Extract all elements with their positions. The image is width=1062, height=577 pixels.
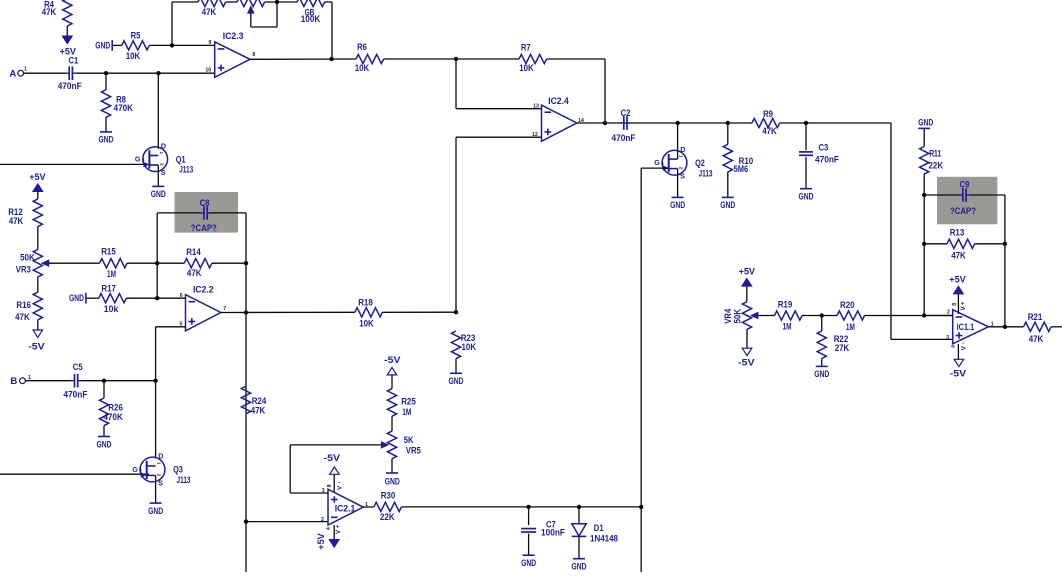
svg-text:?CAP?: ?CAP? bbox=[950, 206, 976, 217]
svg-text:D: D bbox=[158, 452, 163, 461]
svg-text:R13: R13 bbox=[950, 227, 965, 238]
svg-text:-: - bbox=[338, 479, 340, 486]
svg-text:1: 1 bbox=[678, 155, 683, 158]
svg-text:3: 3 bbox=[661, 161, 664, 167]
svg-text:8: 8 bbox=[252, 52, 255, 58]
svg-text:4: 4 bbox=[326, 527, 332, 530]
svg-text:GND: GND bbox=[151, 189, 166, 200]
svg-text:47K: 47K bbox=[1029, 334, 1044, 345]
svg-text:G: G bbox=[654, 158, 660, 167]
svg-text:GND: GND bbox=[799, 192, 814, 203]
svg-text:3: 3 bbox=[139, 468, 142, 474]
svg-text:R6: R6 bbox=[357, 42, 367, 53]
svg-text:GND: GND bbox=[99, 135, 114, 146]
svg-text:100K: 100K bbox=[301, 14, 320, 25]
svg-text:GND: GND bbox=[521, 558, 536, 569]
svg-text:22K: 22K bbox=[929, 161, 944, 172]
svg-text:+5V: +5V bbox=[29, 172, 46, 183]
svg-text:J113: J113 bbox=[177, 475, 191, 486]
svg-text:470K: 470K bbox=[103, 412, 123, 423]
svg-text:470K: 470K bbox=[114, 103, 134, 114]
svg-text:27K: 27K bbox=[835, 343, 850, 354]
svg-text:9: 9 bbox=[209, 40, 212, 46]
svg-text:5K: 5K bbox=[404, 435, 414, 446]
svg-text:470nF: 470nF bbox=[612, 133, 636, 144]
svg-text:1M: 1M bbox=[846, 322, 855, 333]
svg-text:10: 10 bbox=[205, 68, 211, 74]
svg-text:GND: GND bbox=[918, 118, 933, 129]
svg-text:V: V bbox=[961, 345, 968, 350]
svg-text:47K: 47K bbox=[15, 312, 30, 323]
svg-text:10K: 10K bbox=[359, 319, 374, 330]
svg-text:12: 12 bbox=[532, 132, 538, 138]
svg-text:V: V bbox=[960, 306, 967, 311]
svg-text:R30: R30 bbox=[381, 490, 396, 501]
svg-text:100nF: 100nF bbox=[541, 528, 565, 539]
svg-text:47K: 47K bbox=[9, 216, 24, 227]
svg-text:GND: GND bbox=[814, 369, 829, 380]
svg-text:GND: GND bbox=[385, 476, 400, 487]
svg-text:3: 3 bbox=[946, 335, 949, 341]
svg-text:GND: GND bbox=[720, 200, 735, 211]
svg-text:R19: R19 bbox=[778, 300, 793, 311]
svg-text:-5V: -5V bbox=[384, 355, 401, 366]
svg-text:2: 2 bbox=[679, 167, 684, 170]
svg-text:-5V: -5V bbox=[738, 358, 755, 369]
svg-text:C3: C3 bbox=[819, 142, 829, 153]
svg-text:R20: R20 bbox=[840, 300, 855, 311]
svg-text:1M: 1M bbox=[107, 269, 116, 280]
svg-text:R15: R15 bbox=[101, 247, 116, 258]
svg-text:4: 4 bbox=[951, 345, 957, 348]
svg-text:IC2.4: IC2.4 bbox=[548, 96, 569, 107]
svg-text:47K: 47K bbox=[187, 268, 202, 279]
svg-text:Q3: Q3 bbox=[173, 465, 183, 476]
svg-text:S: S bbox=[161, 168, 166, 177]
svg-text:C1: C1 bbox=[69, 55, 79, 66]
svg-text:B: B bbox=[10, 376, 17, 387]
svg-text:470nF: 470nF bbox=[63, 389, 87, 400]
svg-text:R16: R16 bbox=[16, 300, 31, 311]
svg-text:10K: 10K bbox=[462, 342, 477, 353]
svg-text:1N4148: 1N4148 bbox=[590, 533, 619, 544]
svg-text:470nF: 470nF bbox=[815, 154, 839, 165]
svg-text:47K: 47K bbox=[42, 7, 57, 18]
svg-text:S: S bbox=[680, 171, 685, 180]
svg-text:8: 8 bbox=[327, 484, 333, 487]
svg-text:13: 13 bbox=[533, 103, 539, 109]
svg-text:50K: 50K bbox=[733, 309, 744, 324]
svg-text:J113: J113 bbox=[179, 165, 193, 176]
svg-text:Q1: Q1 bbox=[176, 154, 186, 165]
svg-text:10K: 10K bbox=[519, 63, 534, 74]
svg-text:47K: 47K bbox=[762, 126, 777, 137]
svg-text:IC2.2: IC2.2 bbox=[193, 284, 214, 295]
svg-text:GND: GND bbox=[97, 439, 112, 450]
svg-text:1M: 1M bbox=[783, 322, 792, 333]
svg-text:C9: C9 bbox=[960, 179, 970, 190]
svg-text:VR5: VR5 bbox=[406, 446, 422, 457]
svg-text:GND: GND bbox=[670, 200, 685, 211]
svg-text:R17: R17 bbox=[101, 283, 116, 294]
svg-text:2: 2 bbox=[947, 309, 950, 315]
svg-text:+5V: +5V bbox=[739, 267, 756, 278]
svg-text:J113: J113 bbox=[699, 168, 713, 179]
svg-text:R11: R11 bbox=[929, 149, 941, 160]
svg-text:7: 7 bbox=[223, 306, 226, 312]
svg-text:22K: 22K bbox=[380, 512, 395, 523]
svg-text:+5V: +5V bbox=[949, 275, 966, 286]
svg-text:R18: R18 bbox=[358, 298, 373, 309]
svg-text:-: - bbox=[962, 340, 964, 347]
svg-text:A: A bbox=[9, 68, 16, 79]
svg-text:R14: R14 bbox=[186, 247, 201, 258]
svg-text:8: 8 bbox=[952, 303, 958, 306]
svg-text:GND: GND bbox=[572, 562, 587, 573]
svg-text:-5V: -5V bbox=[950, 369, 967, 380]
svg-text:VR3: VR3 bbox=[16, 265, 31, 276]
svg-text:50K: 50K bbox=[20, 253, 35, 264]
svg-text:1M: 1M bbox=[402, 407, 411, 418]
svg-text:1: 1 bbox=[159, 152, 164, 155]
svg-text:+: + bbox=[336, 524, 340, 531]
svg-text:C2: C2 bbox=[621, 108, 631, 119]
svg-text:D: D bbox=[680, 145, 685, 154]
svg-text:-5V: -5V bbox=[28, 341, 45, 352]
svg-text:V: V bbox=[335, 529, 342, 534]
svg-text:?CAP?: ?CAP? bbox=[191, 223, 217, 234]
svg-text:R7: R7 bbox=[521, 42, 531, 53]
svg-text:C8: C8 bbox=[200, 198, 210, 209]
svg-text:R9: R9 bbox=[763, 109, 773, 120]
svg-text:47K: 47K bbox=[251, 406, 266, 417]
svg-text:GND: GND bbox=[69, 293, 84, 304]
svg-text:5M6: 5M6 bbox=[734, 164, 749, 175]
svg-text:+5V: +5V bbox=[316, 533, 327, 550]
svg-text:1: 1 bbox=[156, 462, 161, 465]
svg-text:IC1.1: IC1.1 bbox=[957, 322, 975, 333]
svg-text:3: 3 bbox=[142, 157, 145, 163]
svg-text:470nF: 470nF bbox=[58, 81, 82, 92]
svg-text:IC2.1: IC2.1 bbox=[335, 503, 356, 514]
svg-text:Q2: Q2 bbox=[695, 158, 705, 169]
svg-text:GND: GND bbox=[95, 40, 110, 51]
svg-text:10k: 10k bbox=[104, 304, 119, 315]
svg-text:10K: 10K bbox=[355, 63, 370, 74]
svg-text:C5: C5 bbox=[73, 362, 83, 373]
svg-text:GND: GND bbox=[148, 506, 163, 517]
svg-text:V: V bbox=[336, 485, 343, 490]
svg-text:2: 2 bbox=[157, 474, 162, 477]
svg-text:47K: 47K bbox=[202, 7, 217, 18]
svg-text:GND: GND bbox=[449, 376, 464, 387]
svg-text:-5V: -5V bbox=[324, 453, 341, 464]
svg-text:2: 2 bbox=[159, 163, 164, 166]
svg-text:S: S bbox=[158, 478, 163, 487]
svg-text:G: G bbox=[135, 154, 141, 163]
svg-text:1: 1 bbox=[24, 67, 27, 73]
svg-text:D: D bbox=[161, 141, 166, 150]
svg-text:6: 6 bbox=[180, 293, 183, 299]
svg-text:IC2.3: IC2.3 bbox=[223, 31, 244, 42]
svg-text:R5: R5 bbox=[131, 31, 141, 42]
svg-text:2: 2 bbox=[321, 517, 324, 523]
svg-text:47K: 47K bbox=[951, 251, 966, 262]
svg-text:10K: 10K bbox=[126, 51, 141, 62]
svg-text:G: G bbox=[132, 465, 138, 474]
svg-text:1: 1 bbox=[28, 375, 31, 381]
svg-text:R21: R21 bbox=[1028, 312, 1043, 323]
